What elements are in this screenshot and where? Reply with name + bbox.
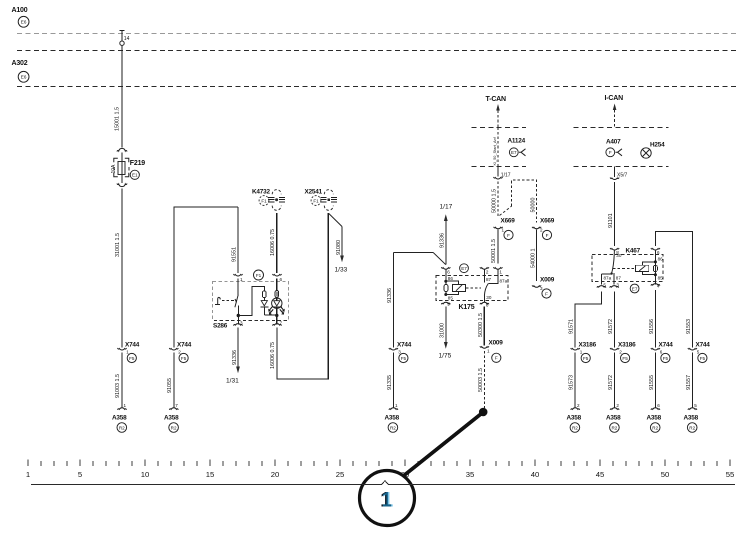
svg-text:E7: E7 [461, 266, 467, 271]
svg-text:1: 1 [126, 350, 129, 355]
switch contact blade [235, 279, 238, 316]
socket pin 4 (K467 coil out) [651, 284, 660, 289]
ground code R2 (col2) [169, 423, 179, 433]
wire 91551 into S286 [237, 207, 239, 273]
svg-text:20: 20 [271, 470, 280, 479]
svg-text:E7: E7 [632, 286, 638, 291]
wire 91572 lower [608, 353, 615, 408]
wire col 91336 down [387, 252, 394, 347]
svg-text:X3186: X3186 [618, 342, 636, 349]
wire X744-3 elbow to K175 coil [393, 252, 445, 264]
svg-text:87a: 87a [604, 276, 612, 281]
svg-text:1/31: 1/31 [226, 378, 239, 385]
svg-text:1/17: 1/17 [440, 204, 453, 211]
svg-text:1: 1 [580, 350, 583, 355]
svg-text:F: F [507, 233, 510, 238]
svg-text:Kl_50_Start_Anf: Kl_50_Start_Anf [492, 136, 497, 165]
wire 50000 dashed [491, 182, 498, 216]
svg-text:K175: K175 [459, 304, 475, 311]
connector pin into S286 left [234, 274, 244, 282]
svg-text:X5/7: X5/7 [617, 173, 628, 179]
svg-text:91003 1.5: 91003 1.5 [115, 374, 121, 398]
svg-text:R2: R2 [119, 425, 125, 430]
socket pin 5 (K467 87a out) [597, 283, 607, 288]
internal lamp branch wiring [238, 287, 264, 316]
svg-text:F5: F5 [583, 356, 589, 361]
svg-text:91101: 91101 [608, 213, 614, 228]
ruler ticks [28, 460, 730, 467]
location code F1 (S286) [254, 270, 264, 280]
svg-text:91055: 91055 [167, 378, 173, 393]
relay K467 box [592, 248, 663, 282]
wire label 91551 [232, 247, 238, 262]
wire 50001 to K175 [491, 230, 498, 264]
svg-text:50: 50 [661, 470, 670, 479]
svg-text:R2: R2 [572, 425, 578, 430]
inline connector K4732 [252, 189, 285, 211]
svg-text:91080: 91080 [336, 240, 342, 255]
svg-text:91557: 91557 [686, 375, 692, 390]
ruler numbers [26, 470, 734, 479]
relay K467 coil [636, 251, 664, 285]
svg-text:F5: F5 [700, 356, 706, 361]
svg-text:A1124: A1124 [508, 138, 526, 145]
svg-text:E1: E1 [132, 173, 138, 178]
connector pin into S286 right [273, 274, 283, 282]
svg-text:1: 1 [395, 403, 398, 408]
svg-text:55: 55 [726, 470, 735, 479]
net I-CAN [605, 95, 624, 127]
svg-text:15: 15 [206, 470, 215, 479]
socket pin 8 (K175 contact out) [480, 296, 489, 308]
K467 contact blade [601, 251, 622, 285]
svg-text:85: 85 [658, 276, 664, 281]
svg-text:F1: F1 [313, 198, 319, 203]
svg-text:30: 30 [486, 295, 492, 300]
socket pin 8 (K467 contact top) [610, 248, 619, 255]
svg-text:6: 6 [657, 403, 660, 408]
svg-text:1: 1 [499, 270, 502, 275]
svg-text:X744: X744 [177, 342, 192, 349]
fuse F219 element [118, 153, 125, 184]
connector X744 pin2 [169, 342, 191, 355]
svg-text:E7: E7 [511, 150, 517, 155]
callout leader overlay [405, 414, 482, 476]
svg-text:14: 14 [124, 36, 130, 42]
wire label 16006 0.75 (upper) [270, 229, 276, 256]
location code F1 (K4732, dashed) [259, 196, 269, 206]
resistor (right lamp) [275, 279, 279, 301]
svg-text:X744: X744 [397, 342, 412, 349]
svg-text:6: 6 [280, 277, 283, 282]
connector cup below fuse [117, 184, 127, 187]
socket pin 6 (K175 coil top) [441, 267, 450, 274]
svg-text:91572: 91572 [608, 319, 614, 334]
wire elbow coil feed 91553 [655, 232, 692, 348]
svg-text:A358: A358 [567, 415, 582, 422]
socket 1/17 below A1124 [494, 166, 511, 179]
callout circle 1 [360, 471, 415, 526]
svg-text:3: 3 [540, 286, 543, 291]
connector A358 pin2 (colB) [606, 403, 621, 422]
inline connector X2541 [305, 189, 338, 211]
socket pin 2 (K175 contact 87) [480, 267, 489, 274]
svg-text:2: 2 [577, 403, 580, 408]
svg-text:86: 86 [448, 276, 454, 281]
switch actuator [215, 297, 237, 304]
svg-text:X3186: X3186 [579, 342, 597, 349]
wire label 16006 0.75 (lower) [270, 342, 276, 369]
svg-text:87: 87 [486, 277, 492, 282]
svg-text:91336: 91336 [387, 288, 393, 303]
wire 91335 [387, 353, 394, 408]
wire main feed col1 top [120, 30, 125, 147]
svg-text:5: 5 [603, 283, 606, 288]
wire label 91336 (S286) [232, 350, 238, 365]
connector A358 pin6 (colC) [647, 403, 662, 422]
svg-text:X2541: X2541 [305, 189, 323, 196]
control unit A407 section [574, 128, 669, 167]
svg-text:X669: X669 [501, 218, 516, 225]
svg-text:2: 2 [619, 350, 622, 355]
svg-text:F5: F5 [129, 356, 135, 361]
pointer 1/33 [335, 267, 348, 274]
svg-text:F5: F5 [663, 356, 669, 361]
svg-text:54000 1: 54000 1 [530, 249, 536, 269]
ground code R2 (colD) [687, 423, 697, 433]
svg-text:25: 25 [336, 470, 345, 479]
svg-text:R2: R2 [390, 425, 396, 430]
junction node S286 left [237, 314, 240, 317]
svg-text:F1: F1 [261, 198, 267, 203]
ground code E6 (A100) [18, 16, 29, 27]
connector X744 pin1 [118, 342, 140, 355]
resistor (mid LED) [263, 291, 267, 298]
socket pin 1 (K175 contact 87a) [493, 267, 502, 274]
svg-text:F5: F5 [181, 356, 187, 361]
relay K175 coil [444, 270, 481, 301]
LED diode mid [261, 298, 277, 316]
K467 coil link dashed [613, 267, 636, 269]
socket pin 5 (K175 coil bottom) [441, 302, 450, 307]
svg-text:R2: R2 [652, 425, 658, 430]
svg-text:8: 8 [486, 303, 489, 308]
wire 91557 [686, 353, 693, 408]
node junction (open circle) [120, 41, 124, 45]
svg-text:50300 1.5: 50300 1.5 [478, 313, 484, 337]
bus line 2 (dashed) [17, 50, 737, 52]
location code F5 (X744-5) [698, 353, 707, 362]
connector A358 pin7 [164, 403, 179, 422]
wire label 91336 (K175 coil) [440, 233, 446, 248]
K175 contact blade [484, 270, 507, 301]
svg-text:87a: 87a [500, 279, 508, 284]
svg-text:91335: 91335 [387, 375, 393, 390]
svg-text:A100: A100 [12, 7, 28, 14]
relay K175 box [436, 276, 508, 312]
svg-text:X744: X744 [125, 342, 140, 349]
junction node S286 right [275, 314, 278, 317]
location code F5 (X744-3) [399, 353, 408, 362]
svg-text:91573: 91573 [569, 375, 575, 390]
ground code R2 (mid) [388, 423, 398, 433]
svg-text:R2: R2 [611, 425, 617, 430]
bus line A302 lower (dashed) [17, 86, 737, 88]
svg-text:F5: F5 [401, 356, 407, 361]
svg-text:X009: X009 [489, 340, 504, 347]
svg-text:91336: 91336 [440, 233, 446, 248]
svg-text:X669: X669 [540, 218, 555, 225]
wire K4732 to S286 [276, 213, 278, 273]
connector X3186 pin2 [610, 342, 636, 355]
svg-text:F5: F5 [622, 356, 628, 361]
svg-text:7: 7 [175, 403, 178, 408]
connector X009 pin1 [480, 340, 503, 354]
svg-text:2: 2 [616, 403, 619, 408]
wire 91573 [569, 353, 576, 408]
wire 91572 from 87 [608, 292, 614, 348]
splice node (callout anchor) [479, 408, 488, 417]
indicator lamp H254 [641, 142, 665, 159]
switch S286 box [213, 281, 289, 329]
svg-text:A358: A358 [684, 415, 699, 422]
wire Kl.50 Start Anf [492, 127, 498, 166]
connector X744 pin3 [389, 342, 412, 355]
svg-text:1: 1 [487, 349, 490, 354]
svg-text:45: 45 [596, 470, 605, 479]
location code F (X009 right) [542, 289, 551, 298]
svg-text:16006 0.75: 16006 0.75 [270, 229, 276, 256]
svg-text:X009: X009 [540, 277, 555, 284]
wire 91571 elbow from 87a [569, 292, 602, 348]
svg-text:85: 85 [448, 296, 454, 301]
svg-text:91572: 91572 [608, 375, 614, 390]
svg-text:10: 10 [141, 470, 150, 479]
connector X669 pin2 [532, 218, 555, 233]
wire label 91080 [336, 240, 342, 255]
location code F (X669-2) [542, 230, 551, 239]
svg-text:91336: 91336 [232, 350, 238, 365]
callout number 1 [380, 489, 394, 512]
svg-text:R2: R2 [171, 425, 177, 430]
svg-text:X744: X744 [696, 342, 711, 349]
svg-text:A358: A358 [647, 415, 662, 422]
svg-text:30: 30 [616, 253, 622, 258]
svg-text:31000: 31000 [439, 323, 445, 338]
connector A358 pin1 [112, 403, 127, 422]
location code E7 (A1124) [509, 148, 525, 157]
svg-text:A358: A358 [164, 415, 179, 422]
socket pin 3 (K467 87 out) [610, 283, 620, 288]
connector pin out S286 left [234, 316, 244, 326]
svg-text:1: 1 [382, 489, 394, 512]
wire 91556 from coil [649, 290, 656, 348]
wire 31000 arrow 1/75 [439, 307, 452, 360]
wire X744-2 to A358 [173, 353, 175, 408]
svg-text:K4732: K4732 [252, 189, 270, 196]
svg-text:31001 1.5: 31001 1.5 [115, 233, 121, 257]
svg-text:5: 5 [697, 350, 700, 355]
svg-text:F: F [545, 291, 548, 296]
svg-text:35: 35 [466, 470, 475, 479]
location code E7 (K175) [460, 264, 469, 273]
svg-text:6: 6 [660, 350, 663, 355]
connector X744 pin6 [651, 342, 673, 355]
svg-text:A358: A358 [606, 415, 621, 422]
location code F1 (X2541, dashed) [311, 196, 321, 206]
wire label 31001 1.5 [115, 233, 121, 257]
svg-text:91556: 91556 [649, 319, 655, 334]
connector A358 pin1 (mid) [385, 403, 400, 422]
svg-text:1: 1 [26, 470, 30, 479]
svg-text:T-CAN: T-CAN [486, 96, 507, 103]
location code F5 (X744-1) [127, 353, 136, 362]
svg-text:91571: 91571 [569, 319, 575, 334]
location code E7 (K467) [630, 284, 639, 293]
location code F5 (X3186-2) [621, 353, 630, 362]
connector X669 pin1 [494, 218, 516, 233]
svg-text:87: 87 [616, 276, 622, 281]
connector pin out S286 right [273, 315, 283, 325]
ground code R2 (colA) [570, 423, 580, 433]
connector X744 pin5 [688, 342, 710, 355]
svg-text:F: F [495, 356, 498, 361]
svg-text:1/75: 1/75 [439, 353, 452, 360]
location code F5 (X744-2) [179, 353, 188, 362]
wire label 15001 1.5 [115, 107, 121, 131]
svg-text:H254: H254 [650, 142, 665, 149]
svg-text:5: 5 [694, 403, 697, 408]
fuse rating 10A [111, 164, 117, 174]
svg-text:5: 5 [78, 470, 82, 479]
svg-text:3: 3 [616, 283, 619, 288]
svg-text:15001 1.5: 15001 1.5 [115, 107, 121, 131]
connector A358 pin5 (colD) [684, 403, 699, 422]
wire 54000 [530, 230, 536, 282]
svg-text:1: 1 [124, 403, 127, 408]
svg-text:91553: 91553 [686, 319, 692, 334]
wire label 91003 1.5 [115, 374, 121, 398]
fuse label F219 [130, 160, 145, 167]
connector X3186 pin1 [571, 342, 597, 355]
control unit A1124 section [472, 128, 527, 167]
connector cap above fuse [117, 148, 127, 151]
connector A358 pin2 (colA) [567, 403, 582, 422]
location code F5 (X744-6) [661, 353, 670, 362]
svg-text:F1: F1 [256, 273, 262, 278]
svg-text:50001 1.5: 50001 1.5 [491, 239, 497, 263]
svg-text:91555: 91555 [649, 375, 655, 390]
wire 91555 [649, 353, 656, 408]
ruler line through circle with notch [362, 481, 413, 485]
svg-text:1: 1 [502, 228, 505, 233]
svg-text:F: F [609, 150, 612, 155]
svg-text:86: 86 [658, 257, 664, 262]
svg-text:A358: A358 [385, 415, 400, 422]
svg-text:5: 5 [447, 302, 450, 307]
dashed branch 50000 to X669-2 [500, 180, 537, 222]
svg-text:I-CAN: I-CAN [605, 95, 624, 102]
svg-text:6: 6 [447, 270, 450, 275]
svg-text:10A: 10A [111, 164, 117, 174]
pin 14 label [124, 36, 130, 42]
svg-text:2: 2 [486, 270, 489, 275]
svg-text:A302: A302 [12, 60, 28, 67]
bus line A100 (gray dashed) [17, 33, 737, 35]
wire col2 feed elbow [174, 207, 238, 348]
callout leader line [404, 414, 482, 476]
wire 50003 dashed [478, 351, 485, 408]
connector X009 pin3 [532, 277, 555, 292]
svg-text:S286: S286 [213, 323, 228, 330]
svg-text:1/17: 1/17 [501, 173, 511, 179]
ruler scale line [31, 484, 735, 486]
svg-text:E6: E6 [21, 75, 27, 80]
fuse F219 holder brackets [114, 158, 129, 176]
wire 50300 [478, 307, 485, 346]
svg-text:50003 1.5: 50003 1.5 [478, 368, 484, 392]
net T-CAN [486, 96, 507, 127]
LED arrows (SW) [268, 306, 273, 314]
ground code R2 (col1) [117, 423, 127, 433]
wire label 91055 [167, 378, 173, 393]
socket pin 6 (K467 coil top) [651, 248, 660, 255]
pointer 1/17 up-arrow (91336) [440, 204, 453, 265]
location code F (A407) [606, 148, 622, 157]
node A302 label [12, 60, 28, 67]
svg-text:2: 2 [540, 228, 543, 233]
wire 91336 down-arrow [236, 328, 240, 374]
svg-text:F219: F219 [130, 160, 145, 167]
svg-text:X744: X744 [659, 342, 674, 349]
location code F (X669-1) [504, 230, 513, 239]
ground code R2 (colC) [650, 423, 660, 433]
wire X744 to A358 col1 [121, 353, 123, 408]
K175 contact 87 stub [484, 270, 491, 283]
svg-text:6: 6 [657, 250, 660, 255]
svg-text:50000: 50000 [530, 198, 536, 213]
svg-text:F: F [546, 233, 549, 238]
svg-text:K467: K467 [626, 248, 641, 255]
socket X5/7 [610, 166, 627, 179]
svg-text:E6: E6 [21, 20, 27, 25]
svg-text:A407: A407 [606, 139, 621, 146]
location code F5 (X3186-1) [581, 353, 590, 362]
svg-text:16006 0.75: 16006 0.75 [270, 342, 276, 369]
node A100 label [12, 7, 28, 14]
location code E1 [130, 170, 139, 179]
pointer 1/31 [226, 378, 239, 385]
wire 16006 return path [277, 213, 328, 379]
svg-text:R2: R2 [689, 425, 695, 430]
svg-text:4: 4 [657, 284, 660, 289]
wire 91101 [608, 182, 615, 246]
wire fuse to X744 [121, 189, 123, 348]
ground code R2 (colB) [610, 423, 620, 433]
illumination LED right [272, 298, 282, 315]
svg-text:A358: A358 [112, 415, 127, 422]
svg-text:91551: 91551 [232, 247, 238, 262]
ground code E6 (A302) [18, 71, 29, 82]
svg-text:1/33: 1/33 [335, 267, 348, 274]
svg-text:40: 40 [531, 470, 540, 479]
LED arrows (SE) [280, 306, 285, 314]
wire 91080 branch [329, 214, 344, 263]
location code F (X009) [492, 353, 501, 362]
svg-text:50000 1.5: 50000 1.5 [491, 189, 497, 213]
